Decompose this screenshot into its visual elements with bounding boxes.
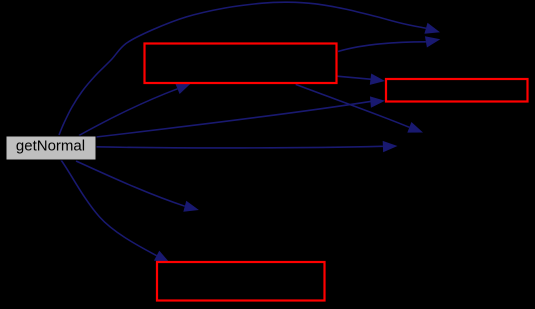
svg-text:getNormal: getNormal [16, 137, 85, 154]
